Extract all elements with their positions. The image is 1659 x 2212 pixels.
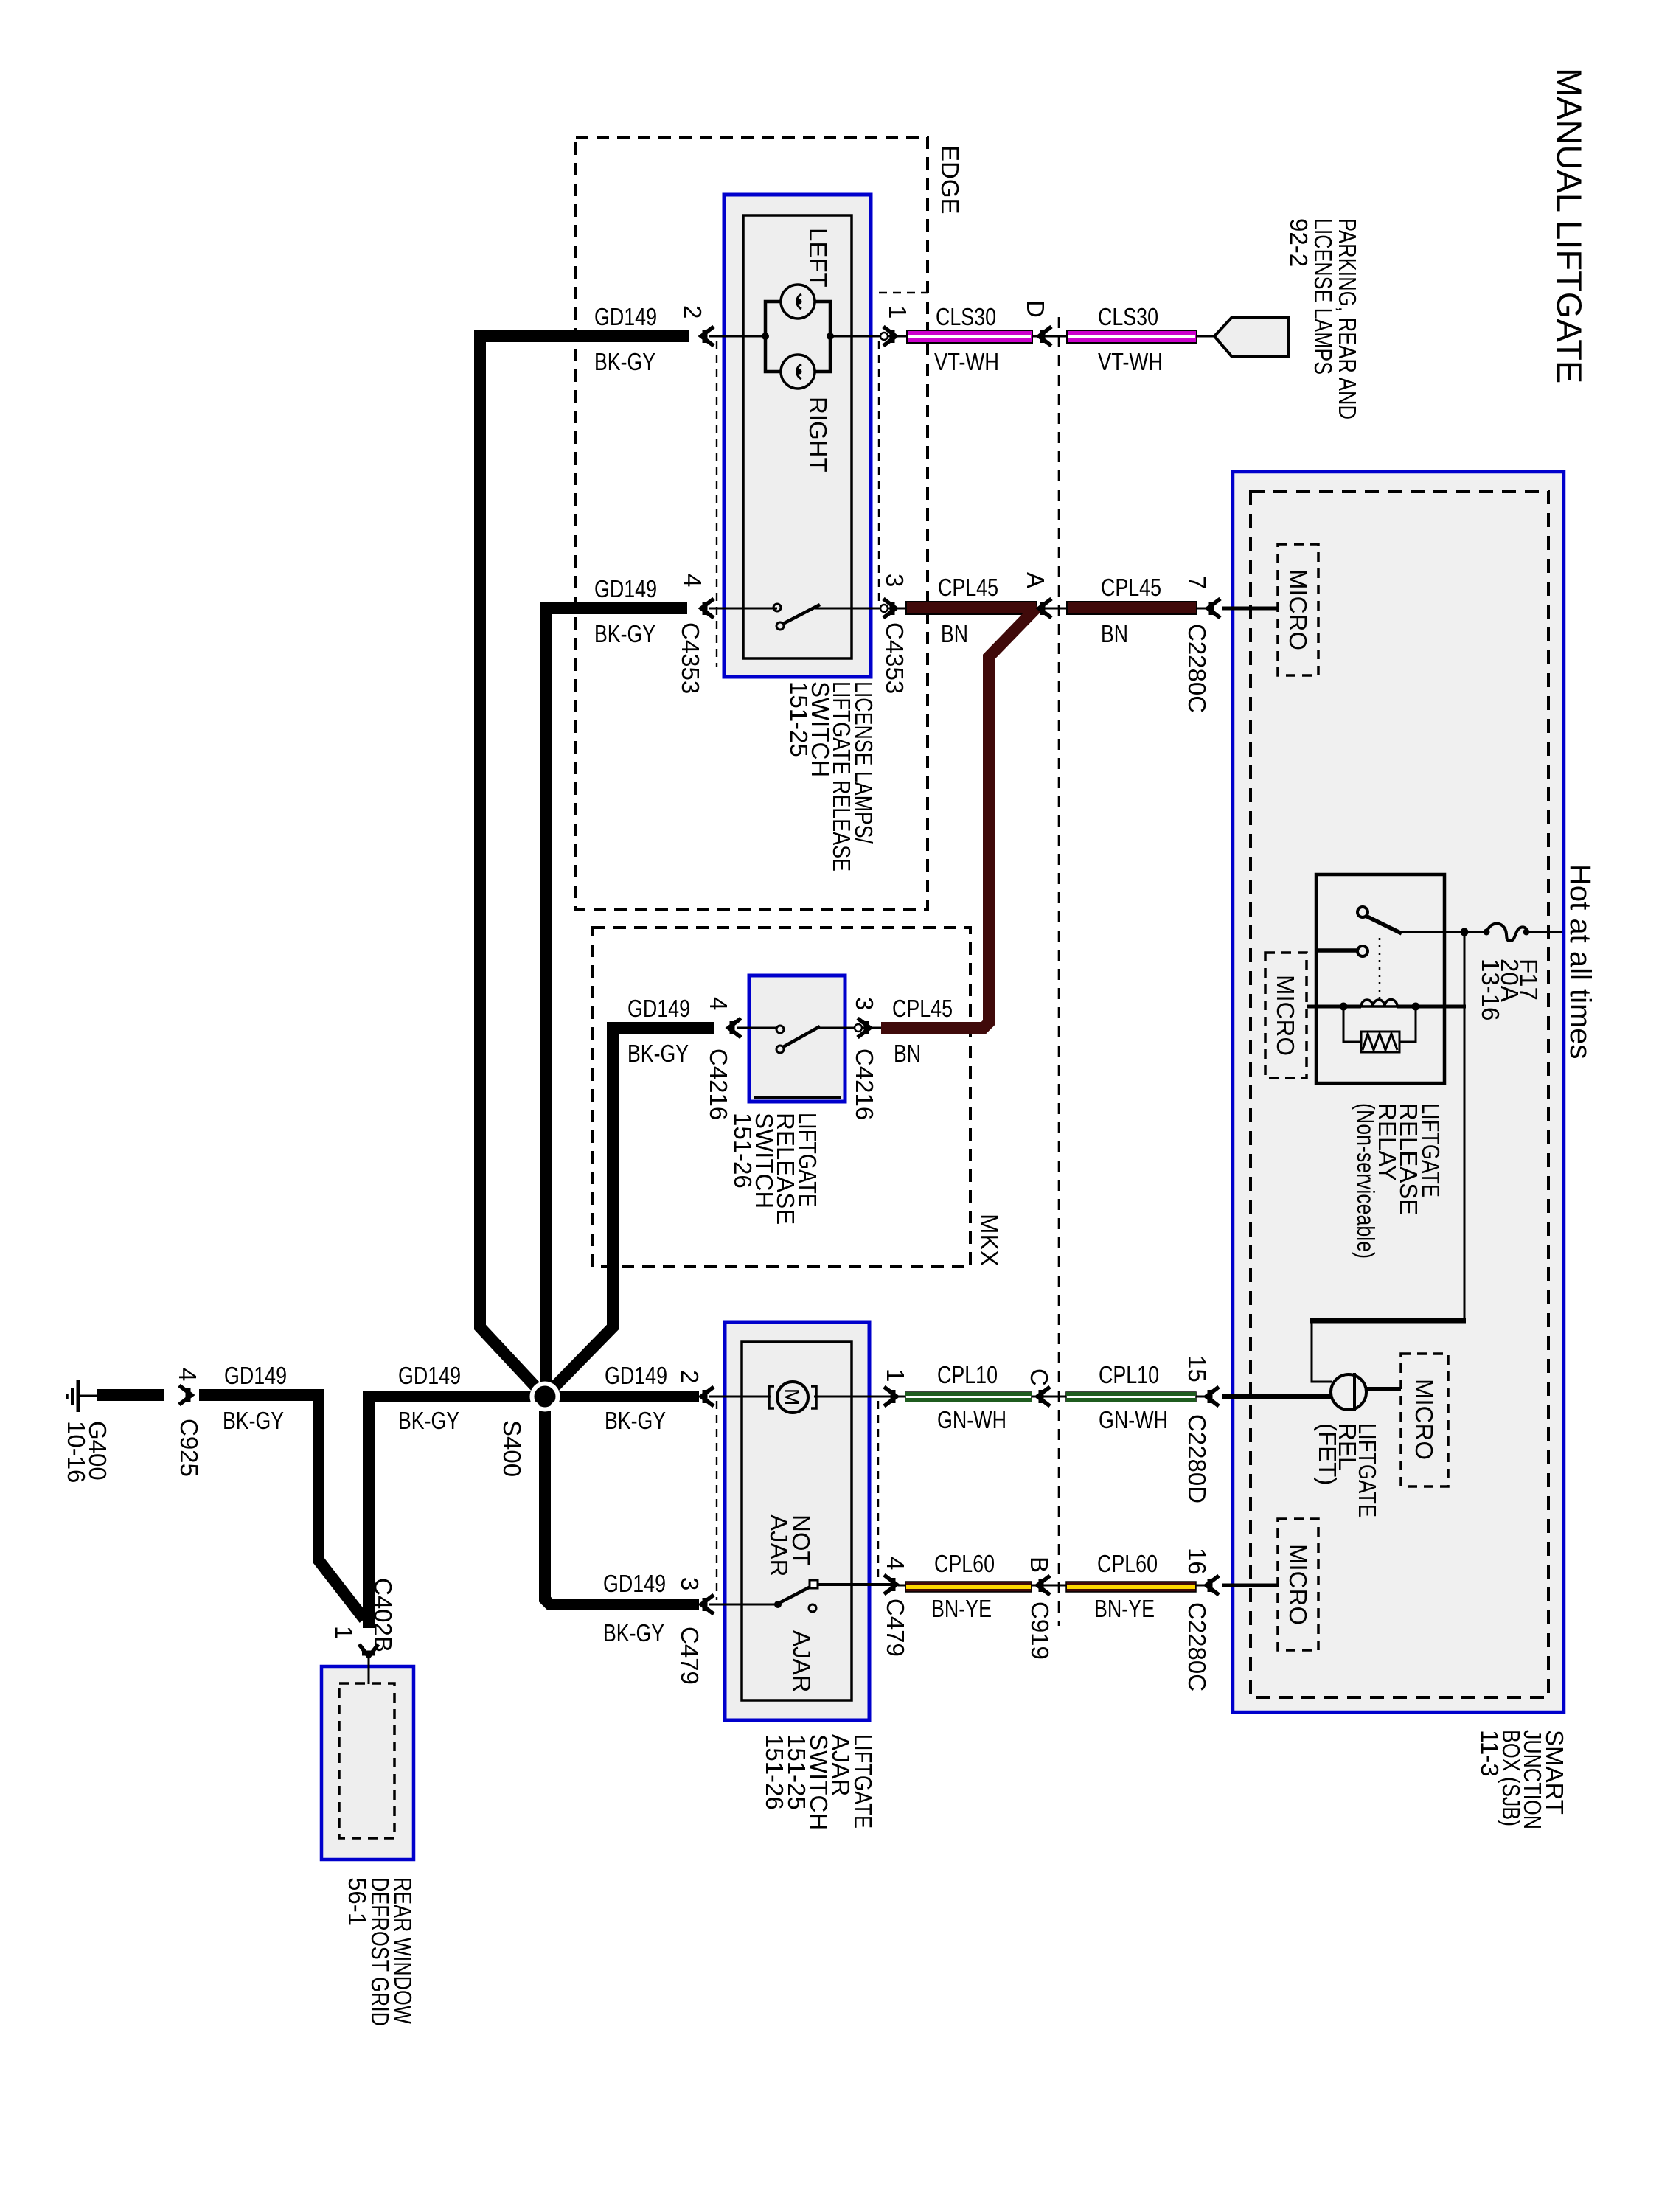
- fuse label F17 20A 13-16: [1477, 959, 1543, 1020]
- wire GD149 from splice S400 to C479 pin 2: [545, 1391, 699, 1402]
- svg-text:C4216: C4216: [851, 1048, 878, 1120]
- svg-text:LEFT: LEFT: [804, 228, 832, 288]
- fuse F17: [1486, 924, 1527, 941]
- SJB pin 16 arrow: [1206, 1576, 1219, 1595]
- SJB pin 16 label: [1183, 1548, 1211, 1575]
- C479 pin 4 label: [882, 1557, 909, 1570]
- svg-text:MICRO: MICRO: [1411, 1379, 1438, 1460]
- C4216 pin 4 label: [705, 997, 732, 1010]
- wire CPL45 BN branch to C4216: [881, 607, 1037, 1028]
- svg-text:3: 3: [676, 1577, 703, 1590]
- svg-text:CPL45: CPL45: [1101, 574, 1161, 601]
- C479 connector label right: [882, 1599, 909, 1657]
- SJB pin 15 label: [1183, 1355, 1211, 1382]
- label RIGHT: [804, 397, 832, 473]
- EDGE label: [936, 145, 964, 215]
- junction node at fuse: [1461, 928, 1469, 936]
- wire thin row at C4216: [737, 1027, 776, 1029]
- EDGE harness dashed box: [576, 137, 928, 909]
- off-page reference label: [1285, 218, 1361, 420]
- label NOT AJAR: [765, 1514, 815, 1576]
- svg-text:2: 2: [676, 1370, 703, 1383]
- relay coil junction left: [1340, 1003, 1348, 1011]
- svg-text:C479: C479: [882, 1599, 909, 1657]
- wire GD149 from C4353 pin 4 to splice S400: [546, 608, 687, 1397]
- SJB pin 7 label: [1183, 576, 1211, 589]
- svg-text:LICENSE LAMPS: LICENSE LAMPS: [1310, 218, 1337, 375]
- ground G400 label: [63, 1421, 111, 1483]
- connector dashed outline at C479: [716, 1401, 717, 1600]
- svg-text:4: 4: [679, 574, 706, 587]
- C479 pin 1 arrow: [884, 1387, 897, 1406]
- relay common contact: [1357, 907, 1368, 917]
- svg-text:151-25: 151-25: [785, 681, 813, 757]
- component label LIFTGATE RELEASE SWITCH 151-26: [729, 1113, 821, 1225]
- svg-text:MICRO: MICRO: [1272, 975, 1299, 1056]
- wire FET feed elbow: [1312, 1323, 1332, 1382]
- svg-text:GN-WH: GN-WH: [937, 1406, 1006, 1433]
- svg-text:16: 16: [1183, 1548, 1211, 1575]
- relay suppression resistor connections: [1343, 1006, 1416, 1042]
- label AJAR: [788, 1630, 815, 1692]
- wire thin row at C479 pins 2-1: [709, 1396, 771, 1398]
- C4353 pin 1 arrow: [883, 327, 896, 346]
- relay NO contact stub wire: [1317, 948, 1357, 953]
- C479 pin 1 label: [882, 1368, 909, 1382]
- FET label LIFTGATE REL (FET): [1314, 1423, 1381, 1517]
- svg-text:BK-GY: BK-GY: [594, 620, 655, 647]
- svg-text:C2280C: C2280C: [1183, 1602, 1211, 1691]
- wire from fuse to SJB edge: [1526, 931, 1562, 933]
- wire from fuse junction down to FET feed: [1464, 932, 1466, 1321]
- svg-text:BN: BN: [941, 620, 968, 647]
- wire GD149 from C4216 pin 4 to splice S400: [548, 1028, 714, 1394]
- svg-text:3: 3: [881, 574, 908, 587]
- wire CPL60 thin line: [898, 1585, 1209, 1587]
- svg-text:GN-WH: GN-WH: [1099, 1406, 1168, 1433]
- svg-text:7: 7: [1183, 576, 1211, 589]
- MICRO box FET side: [1401, 1354, 1448, 1486]
- C479 pin 2 label: [676, 1370, 703, 1383]
- svg-text:CPL45: CPL45: [892, 995, 953, 1022]
- component label LIFTGATE AJAR SWITCH 151-25 151-26: [761, 1734, 877, 1830]
- C4216 pin 3 label: [851, 997, 878, 1010]
- liftgate ajar switch arm: [776, 1586, 812, 1604]
- svg-text:GD149: GD149: [398, 1362, 461, 1389]
- inline pin A arrow: [1039, 599, 1051, 618]
- svg-text:AJAR: AJAR: [765, 1514, 793, 1576]
- MICRO box bottom (pin 16): [1278, 1519, 1318, 1650]
- license lamps / liftgate release switch component box (C4353): [724, 195, 871, 677]
- component label LICENSE LAMPS/LIFTGATE RELEASE SWITCH 151-25: [785, 681, 877, 872]
- wire CPL10 GN-WH segment 2: [1066, 1392, 1196, 1402]
- wire SJB pin 15 to FET: [1222, 1394, 1332, 1399]
- wire SJB pin 7 to MICRO: [1222, 607, 1278, 611]
- C479 connector label left: [676, 1627, 703, 1685]
- svg-text:MICRO: MICRO: [1284, 569, 1312, 650]
- title MANUAL LIFTGATE: [1550, 68, 1589, 383]
- svg-text:56-1: 56-1: [344, 1877, 371, 1926]
- svg-text:CPL60: CPL60: [934, 1550, 995, 1577]
- wire FET feed horizontal: [1310, 1318, 1466, 1324]
- svg-text:C2280D: C2280D: [1183, 1414, 1211, 1503]
- svg-text:GD149: GD149: [224, 1362, 287, 1389]
- svg-text:BN-YE: BN-YE: [931, 1595, 992, 1622]
- svg-text:VT-WH: VT-WH: [934, 348, 999, 375]
- connector C925 pin 4 label: [174, 1368, 201, 1381]
- inline pin D label: [1022, 300, 1049, 318]
- C4353 pin 2 arrow: [701, 327, 714, 346]
- rear window defrost grid component box: [321, 1666, 414, 1860]
- license lamps/liftgate release switch contact: [773, 604, 781, 611]
- wire CPL60 BN-YE segment 2: [1066, 1582, 1196, 1592]
- liftgate ajar switch NOT AJAR contact: [810, 1580, 818, 1588]
- svg-text:4: 4: [882, 1557, 909, 1570]
- inline pin C label: [1026, 1368, 1053, 1386]
- wire CPL10 GN-WH segment 1: [905, 1392, 1032, 1402]
- svg-text:GD149: GD149: [605, 1362, 667, 1389]
- svg-text:C479: C479: [676, 1627, 703, 1685]
- C4353 pin 1 label: [884, 305, 911, 319]
- svg-text:1: 1: [884, 305, 911, 319]
- svg-text:C4353: C4353: [881, 622, 908, 694]
- C479 pin 2 arrow: [701, 1387, 714, 1406]
- splice S400 junction dot: [532, 1384, 558, 1410]
- C4216 pin 3 arrow: [858, 1018, 870, 1037]
- svg-text:GD149: GD149: [594, 303, 657, 330]
- wire FET to MICRO: [1366, 1387, 1401, 1391]
- svg-text:Hot at all times: Hot at all times: [1564, 864, 1596, 1060]
- svg-text:11-3: 11-3: [1476, 1730, 1503, 1777]
- bulb LEFT lamp: [781, 285, 815, 319]
- wire CPL45 thin line row 2: [898, 608, 1209, 610]
- rear window defrost grid label: [344, 1877, 417, 2026]
- svg-text:BK-GY: BK-GY: [223, 1407, 284, 1434]
- inline pin B label: [1026, 1557, 1053, 1573]
- wire GD149 from C4353 pin 2 to splice S400: [480, 336, 689, 1394]
- relay switch arm: [1366, 916, 1402, 933]
- svg-text:BK-GY: BK-GY: [627, 1040, 689, 1067]
- svg-text:CLS30: CLS30: [936, 303, 996, 330]
- smart junction box (SJB) outer box: [1233, 472, 1564, 1712]
- off-page reference to PARKING REAR AND LICENSE LAMPS: [1214, 317, 1288, 357]
- bulb RIGHT lamp: [781, 355, 815, 389]
- svg-text:BK-GY: BK-GY: [605, 1407, 666, 1434]
- C4353 pin 3 label: [881, 574, 908, 587]
- svg-text:C: C: [1026, 1368, 1053, 1386]
- svg-text:MKX: MKX: [975, 1214, 1003, 1267]
- wire CLS30 VT-WH segment 2: [1067, 330, 1197, 343]
- connector C2280C label bottom: [1183, 1602, 1211, 1691]
- liftgate release switch inner bottom line: [754, 1096, 841, 1099]
- svg-text:(FET): (FET): [1314, 1423, 1341, 1485]
- svg-text:C4353: C4353: [677, 622, 704, 694]
- svg-text:GD149: GD149: [594, 575, 657, 602]
- svg-text:4: 4: [174, 1368, 201, 1381]
- liftgate release switch pivot: [776, 1046, 784, 1053]
- svg-text:1: 1: [882, 1368, 909, 1382]
- liftgate release relay box: [1316, 874, 1444, 1083]
- SJB inner dashed outline: [1251, 491, 1548, 1697]
- connector C402B pin 1 label: [330, 1626, 358, 1639]
- C479 pin 3 arrow: [701, 1595, 714, 1614]
- inline connector C919 dashed line: [1058, 317, 1060, 1626]
- connector dashed stub above C4353: [879, 292, 928, 293]
- license lamps parallel branch outline: [765, 302, 830, 372]
- liftgate release FET: [1331, 1374, 1366, 1410]
- svg-text:2: 2: [679, 305, 706, 319]
- wire CLS30 VT-WH segment 1: [907, 330, 1032, 343]
- MICRO box top (pin 7): [1278, 544, 1318, 675]
- liftgate release switch component box (C4216): [749, 975, 845, 1102]
- SJB pin 7 arrow: [1208, 599, 1220, 618]
- svg-text:VT-WH: VT-WH: [1098, 348, 1163, 375]
- relay coil wire: [1307, 1005, 1361, 1009]
- svg-text:CPL45: CPL45: [938, 574, 998, 601]
- connector C402B label: [369, 1578, 397, 1652]
- wire CLS30 thin line row 1: [898, 335, 1214, 338]
- svg-text:A: A: [1022, 572, 1049, 588]
- svg-text:PARKING, REAR AND: PARKING, REAR AND: [1334, 218, 1361, 420]
- wire CPL60 BN-YE segment 1: [905, 1582, 1032, 1592]
- inline pin B arrow: [1037, 1576, 1050, 1595]
- wire thin row at C4353 pins 4-3: [709, 608, 777, 610]
- svg-text:10-16: 10-16: [63, 1421, 90, 1483]
- svg-text:15: 15: [1183, 1355, 1211, 1382]
- svg-text:D: D: [1022, 300, 1049, 318]
- connector C925 label: [175, 1419, 203, 1477]
- svg-text:BN: BN: [1101, 620, 1128, 647]
- svg-text:(Non-serviceable): (Non-serviceable): [1352, 1103, 1380, 1259]
- C4353 connector label right: [881, 622, 908, 694]
- junction node at branch left: [762, 333, 769, 340]
- C4216 pin 4 arrow: [728, 1018, 741, 1037]
- svg-text:EDGE: EDGE: [936, 145, 964, 215]
- svg-text:C402B: C402B: [369, 1578, 397, 1652]
- relay suppression resistor: [1361, 1032, 1399, 1052]
- MKX harness dashed box: [593, 928, 970, 1267]
- wire CPL10 thin line: [898, 1396, 1209, 1398]
- liftgate ajar switch inner outline: [742, 1342, 852, 1700]
- svg-text:92-2: 92-2: [1285, 218, 1312, 267]
- svg-text:RIGHT: RIGHT: [804, 397, 832, 473]
- C4353 connector label left: [677, 622, 704, 694]
- liftgate release switch contact: [776, 1026, 784, 1033]
- relay NO contact: [1357, 946, 1368, 956]
- connector C2280C label top: [1183, 624, 1211, 713]
- svg-text:MANUAL LIFTGATE: MANUAL LIFTGATE: [1550, 68, 1589, 383]
- connector C925 arrow: [179, 1385, 192, 1405]
- svg-text:4: 4: [705, 997, 732, 1010]
- connector C2280D label: [1183, 1414, 1211, 1503]
- svg-text:151-26: 151-26: [761, 1734, 788, 1810]
- MKX label: [975, 1214, 1003, 1267]
- svg-text:GD149: GD149: [627, 995, 690, 1022]
- C4353 pin 2 label: [679, 305, 706, 319]
- wire GD149 from splice S400 to connector C402B: [369, 1397, 545, 1628]
- C479 pin 3 label: [676, 1577, 703, 1590]
- switch arm: [783, 605, 820, 624]
- rear window defrost grid inner dashed outline: [339, 1683, 394, 1838]
- SJB label: [1476, 1730, 1568, 1829]
- svg-text:BN: BN: [894, 1040, 921, 1067]
- svg-text:C2280C: C2280C: [1183, 624, 1211, 713]
- svg-text:BK-GY: BK-GY: [594, 348, 655, 375]
- svg-text:AJAR: AJAR: [788, 1630, 815, 1692]
- svg-text:CLS30: CLS30: [1098, 303, 1158, 330]
- wire CPL45 BN segment 2: [1067, 602, 1197, 614]
- ground G400 symbol: [77, 1380, 80, 1412]
- MICRO box relay coil side: [1265, 953, 1307, 1078]
- C4353 pin 4 label: [679, 574, 706, 587]
- liftgate ajar switch component box (C479): [725, 1322, 869, 1720]
- wire thin row at C479 pin 3: [709, 1604, 776, 1606]
- wire SJB pin 16 to MICRO: [1222, 1584, 1278, 1587]
- wire GD149 from splice S400 down to C479 pin 3: [545, 1397, 699, 1604]
- svg-text:1: 1: [330, 1626, 358, 1639]
- svg-text:MICRO: MICRO: [1284, 1544, 1312, 1625]
- switch pivot contact: [776, 622, 784, 630]
- connector dashed outline at C4353: [716, 341, 717, 667]
- svg-text:C925: C925: [175, 1419, 203, 1477]
- SJB pin 15 arrow: [1206, 1387, 1219, 1406]
- label LEFT: [804, 228, 832, 288]
- svg-text:CPL10: CPL10: [937, 1361, 998, 1388]
- inline pin D arrow: [1039, 327, 1051, 346]
- license lamps inner outline: [743, 215, 852, 658]
- svg-text:BN-YE: BN-YE: [1094, 1595, 1155, 1622]
- splice S400 label: [498, 1420, 526, 1477]
- relay coil junction right: [1412, 1003, 1420, 1011]
- wire from ajar switch contact to C479 pin 4: [817, 1583, 897, 1586]
- inline pin A label: [1022, 572, 1049, 588]
- svg-text:CPL10: CPL10: [1099, 1361, 1159, 1388]
- relay coil: [1361, 999, 1397, 1006]
- label Hot at all times: [1564, 864, 1596, 1060]
- svg-text:151-26: 151-26: [729, 1113, 757, 1189]
- svg-text:C4216: C4216: [705, 1048, 732, 1120]
- C4216 connector label right: [851, 1048, 878, 1120]
- C479 pin 4 arrow: [884, 1575, 897, 1594]
- C4353 pin 4 arrow: [701, 599, 714, 618]
- connector C919 label: [1026, 1601, 1054, 1660]
- wire from relay arm to fuse junction: [1402, 931, 1486, 933]
- inline pin C arrow: [1037, 1387, 1050, 1406]
- svg-text:CPL60: CPL60: [1097, 1550, 1158, 1577]
- svg-text:GD149: GD149: [603, 1570, 666, 1597]
- liftgate ajar switch motor: [769, 1386, 774, 1408]
- svg-text:M: M: [781, 1388, 804, 1405]
- svg-text:3: 3: [851, 997, 878, 1010]
- liftgate release switch arm: [783, 1026, 820, 1047]
- liftgate ajar switch AJAR contact: [809, 1604, 816, 1612]
- junction node at branch right: [827, 333, 834, 340]
- wire CPL45 BN segment 1: [906, 602, 1037, 614]
- svg-text:C919: C919: [1026, 1601, 1054, 1660]
- relay label LIFTGATE RELEASE RELAY (Non-serviceable): [1352, 1103, 1444, 1259]
- C4216 connector label left: [705, 1048, 732, 1120]
- relay actuator dotted link: [1379, 938, 1381, 1001]
- wire thin row at C4353 pins 2-1: [709, 335, 765, 338]
- svg-text:BK-GY: BK-GY: [603, 1619, 664, 1646]
- svg-text:S400: S400: [498, 1420, 526, 1477]
- svg-text:13-16: 13-16: [1477, 959, 1504, 1020]
- svg-text:BK-GY: BK-GY: [398, 1407, 459, 1434]
- C4353 pin 3 arrow: [883, 599, 896, 618]
- svg-text:B: B: [1026, 1557, 1053, 1573]
- connector C402B arrow: [359, 1644, 378, 1657]
- wire GD149 from ground G400 through C925 toward C402B: [97, 1389, 164, 1401]
